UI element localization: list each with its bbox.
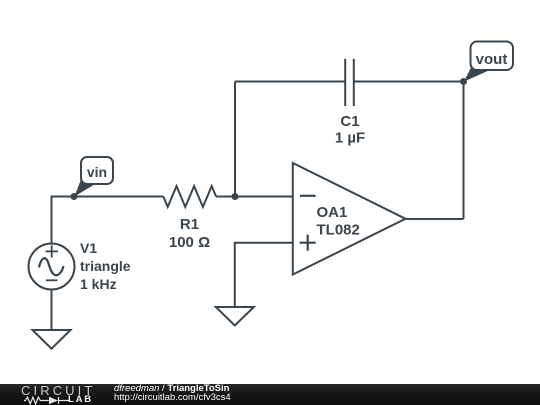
wire feedback to C1 [235,81,345,83]
footer bar [0,384,540,405]
wire feedback riser [234,82,236,197]
wire C1 to vout node [354,81,464,83]
wire R1 to node A [216,196,235,198]
net label vin [75,157,114,197]
wire vout drop [463,82,465,220]
wire node A to op-amp inverting input [235,196,293,198]
node A junction [232,193,239,200]
wire op-amp output [406,218,464,220]
ground GND1 [33,330,71,349]
wire non-inverting input [235,243,293,307]
svg-text:TL082: TL082 [317,222,360,239]
svg-text:vin: vin [87,164,107,180]
svg-text:1 µF: 1 µF [335,130,365,147]
CircuitLab logo [21,385,101,396]
svg-text:V1: V1 [80,240,97,256]
wire V1 top to vin node [52,197,75,244]
svg-text:R1: R1 [180,216,199,233]
node vout junction [460,78,467,85]
svg-text:C1: C1 [340,113,359,130]
ground GND2 [216,307,254,326]
wire V1 bottom [51,290,53,331]
capacitor C1 [345,59,354,106]
svg-text:vout: vout [476,51,508,68]
wire vin node to R1 [74,196,163,198]
svg-text:100 Ω: 100 Ω [169,234,210,251]
resistor R1 [163,186,216,207]
node vin junction [71,193,78,200]
svg-text:triangle: triangle [80,258,131,274]
voltage source V1 [29,244,75,290]
svg-text:OA1: OA1 [317,204,348,221]
net label vout [464,42,513,82]
svg-text:1 kHz: 1 kHz [80,276,117,292]
op-amp OA1 [293,163,406,275]
